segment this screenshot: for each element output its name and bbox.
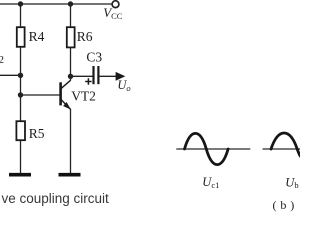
waveform Ub sine (partial) [271,133,300,156]
wire base [21,94,60,96]
svg-text:Ub: Ub [285,175,298,190]
resistor R5 [16,121,25,140]
node C (input junction) [18,73,23,78]
wire left rail upper [20,4,22,28]
node B (top rail / R6 branch) [68,1,73,6]
svg-text:Uc1: Uc1 [202,175,219,190]
svg-text:C3: C3 [86,49,102,64]
svg-text:R5: R5 [29,126,45,141]
wire R6 branch upper [70,4,72,28]
wire collector to C3 [71,75,93,77]
svg-text:Uo: Uo [117,78,130,93]
svg-text:(b): (b) [273,198,299,212]
arrow output [116,72,126,81]
waveform Uc1 sine [185,133,229,164]
svg-text:2: 2 [0,54,4,66]
wire C3 to output [98,75,117,77]
svg-text:R6: R6 [77,29,93,44]
node E (collector junction) [68,74,73,79]
polarity + mark [85,78,91,84]
resistor R6 [67,27,75,47]
axis waveform 1 [176,148,250,150]
wire input stub [0,74,21,76]
svg-text:R4: R4 [29,29,45,44]
terminal Vcc [112,1,119,8]
resistor R4 [17,27,25,47]
svg-text:ve coupling circuit: ve coupling circuit [2,191,110,206]
axis waveform 2 [263,148,301,150]
wire emitter vertical [70,109,72,174]
ground left [9,173,31,177]
capacitor C3 [94,66,99,84]
svg-text:VT2: VT2 [71,89,96,104]
wire left rail middle [20,47,22,122]
node D (base junction) [18,92,23,97]
wire top rail [0,3,112,5]
transistor VT2 [61,80,71,109]
wire collector vertical [70,47,72,80]
ground right [59,173,81,177]
wire left rail lower [20,140,22,174]
node A (top rail / R4 branch) [18,1,23,6]
